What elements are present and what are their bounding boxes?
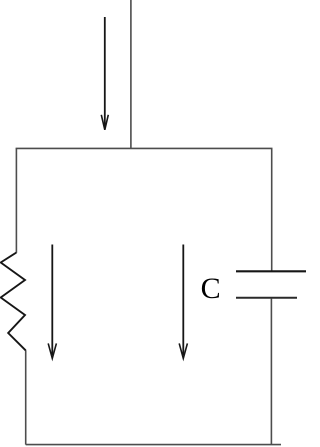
svg-text:C: C	[201, 272, 221, 305]
